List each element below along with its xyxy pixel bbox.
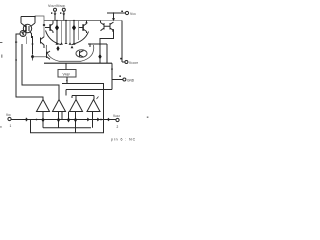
svg-text:VADJ: VADJ [113, 114, 120, 118]
svg-text:VOUT/VIN(F): VOUT/VIN(F) [48, 4, 65, 8]
svg-text:1: 1 [10, 124, 12, 128]
svg-text:VCONT: VCONT [129, 61, 138, 65]
svg-text:2: 2 [117, 125, 119, 129]
svg-text:VREF: VREF [63, 72, 71, 76]
svg-text:pin 6 : NC: pin 6 : NC [111, 138, 136, 142]
svg-text:VIN: VIN [6, 113, 11, 117]
svg-text:GND: GND [127, 78, 135, 82]
svg-text:VCC: VCC [130, 12, 136, 16]
